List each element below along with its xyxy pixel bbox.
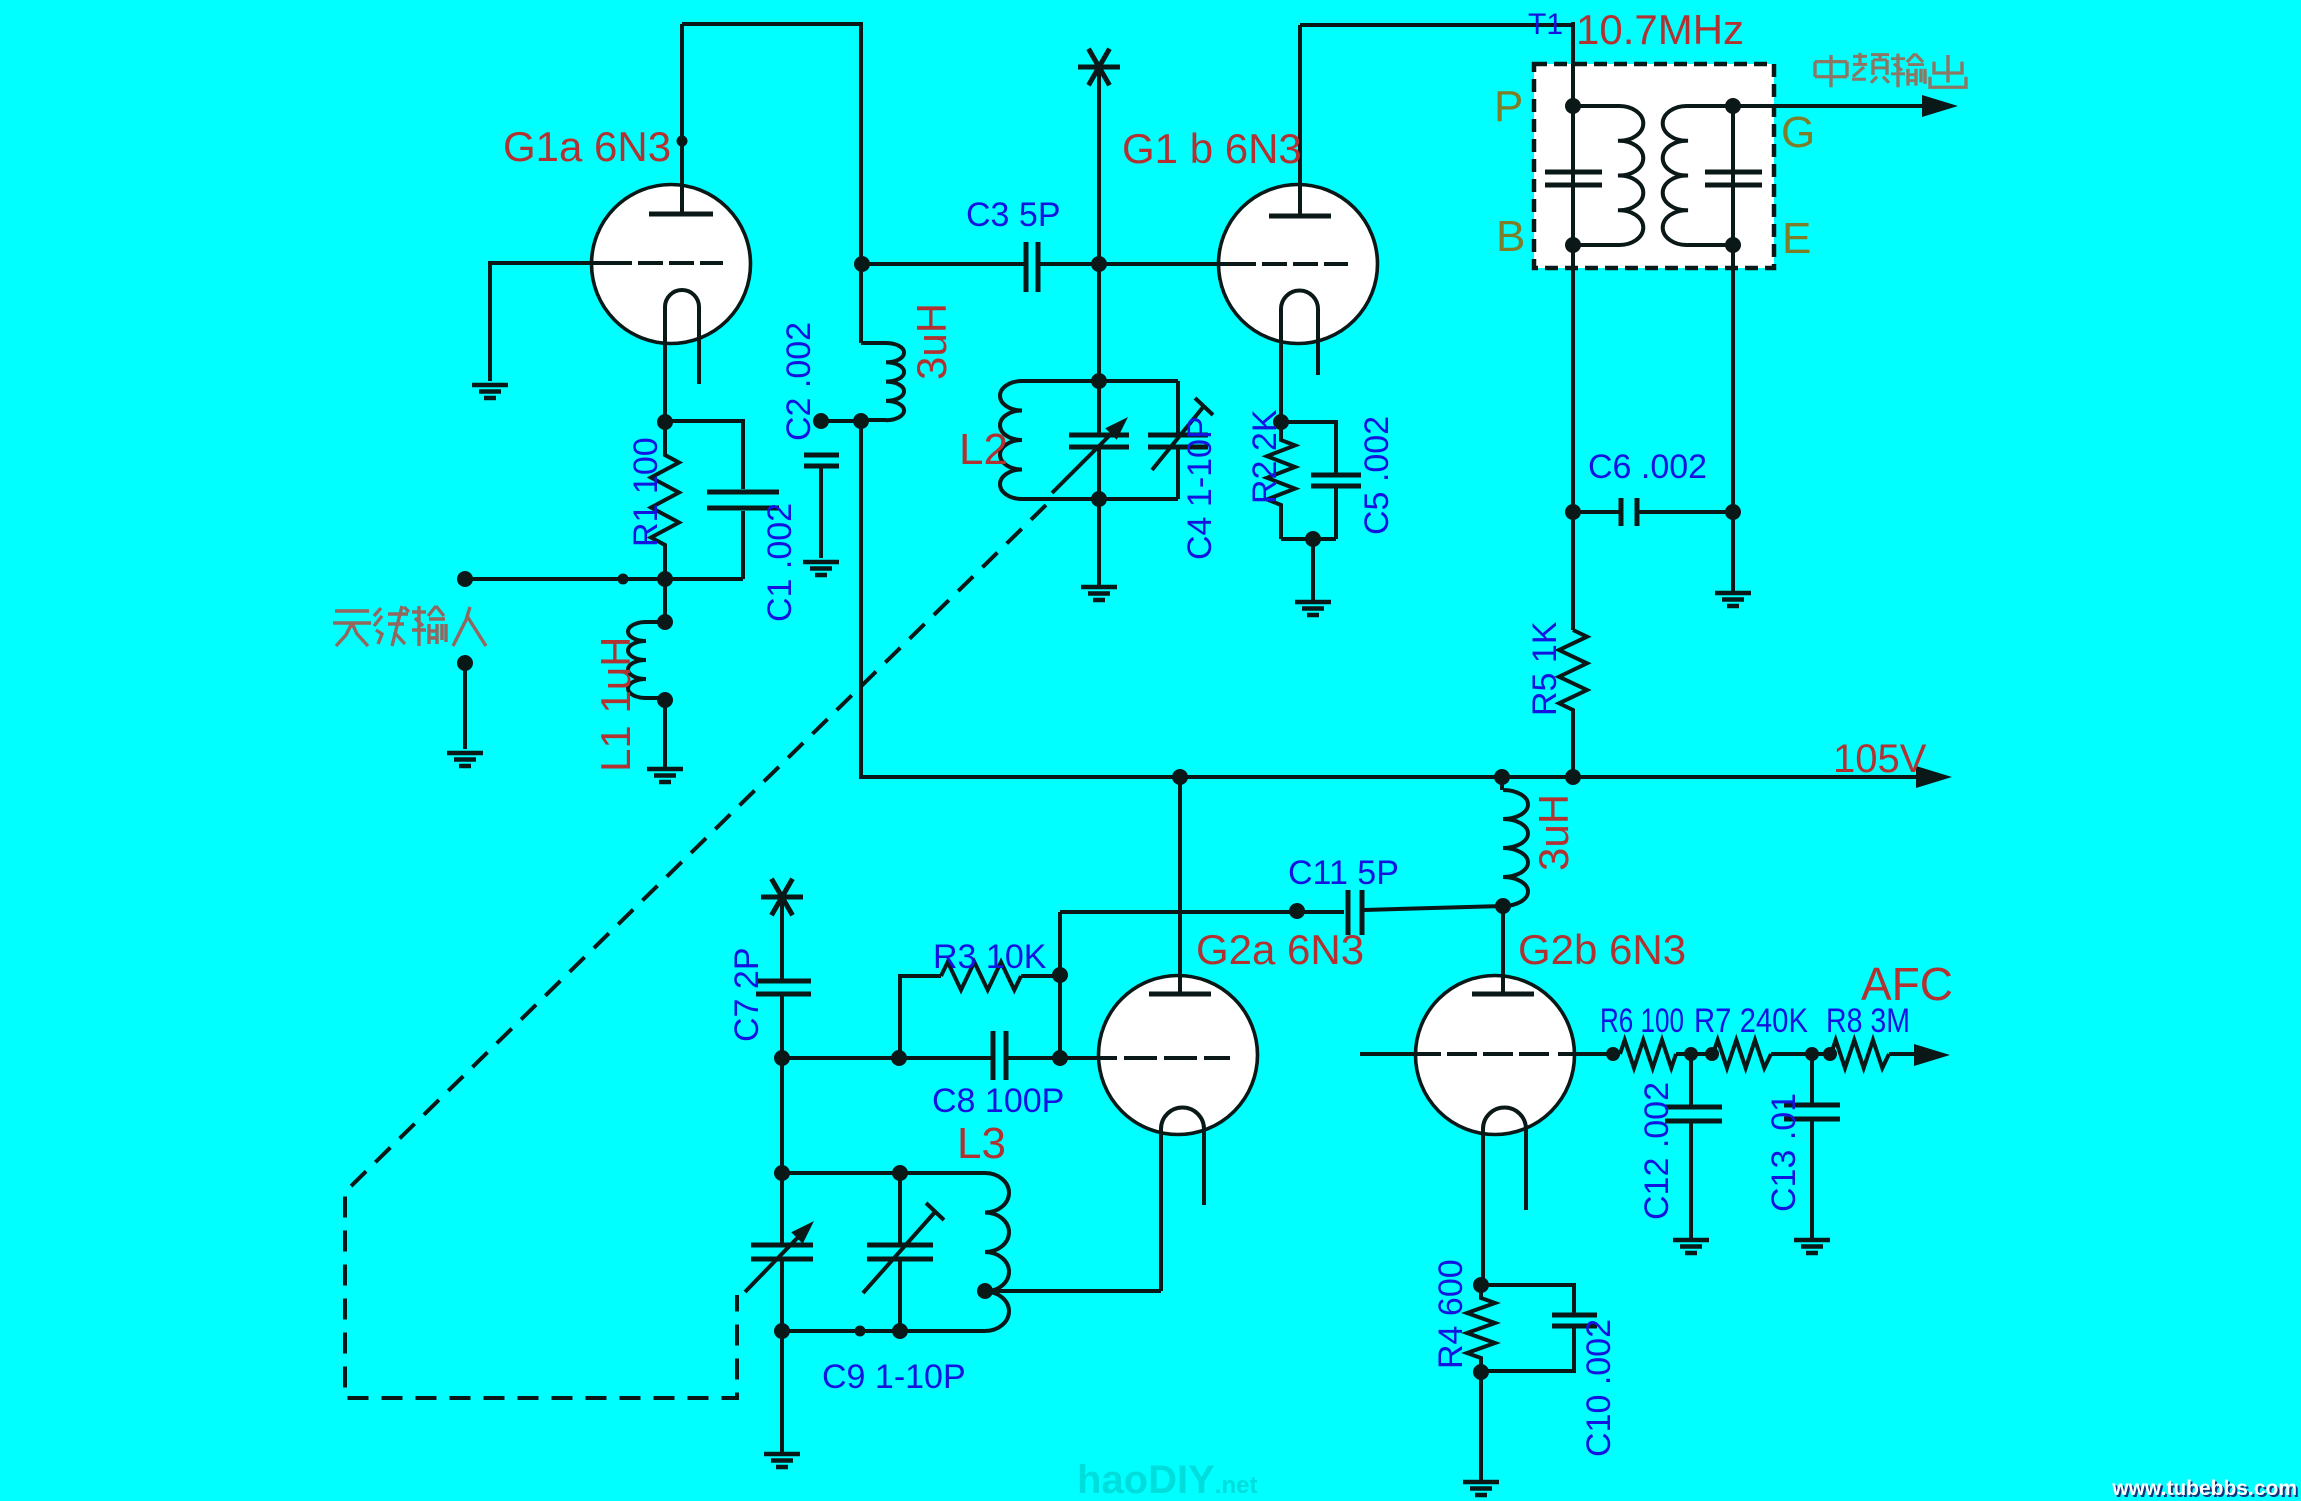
svg-text:G1 b 6N3: G1 b 6N3 bbox=[1122, 125, 1302, 172]
svg-text:C9 1-10P: C9 1-10P bbox=[822, 1358, 966, 1396]
svg-text:R6 100: R6 100 bbox=[1600, 1002, 1684, 1040]
svg-text:R8 3M: R8 3M bbox=[1826, 1002, 1910, 1040]
svg-text:T1: T1 bbox=[1528, 8, 1563, 41]
svg-text:C6 .002: C6 .002 bbox=[1588, 448, 1707, 486]
svg-text:C1 .002: C1 .002 bbox=[761, 503, 799, 622]
svg-text:C3 5P: C3 5P bbox=[966, 196, 1061, 234]
svg-text:C7 2P: C7 2P bbox=[728, 948, 766, 1043]
svg-text:R2 2K: R2 2K bbox=[1246, 409, 1284, 504]
svg-text:C10 .002: C10 .002 bbox=[1580, 1319, 1618, 1457]
svg-text:L1 1uH: L1 1uH bbox=[592, 637, 639, 772]
svg-text:B: B bbox=[1496, 212, 1525, 261]
svg-text:C5 .002: C5 .002 bbox=[1358, 416, 1396, 535]
svg-text:G1a 6N3: G1a 6N3 bbox=[503, 123, 671, 170]
svg-text:G2a 6N3: G2a 6N3 bbox=[1196, 926, 1364, 973]
svg-text:3uH: 3uH bbox=[908, 303, 955, 380]
svg-text:R3 10K: R3 10K bbox=[933, 938, 1047, 976]
svg-text:G: G bbox=[1781, 108, 1815, 157]
svg-text:C8 100P: C8 100P bbox=[932, 1082, 1064, 1120]
svg-text:C11 5P: C11 5P bbox=[1288, 854, 1399, 892]
svg-text:R5 1K: R5 1K bbox=[1526, 621, 1564, 716]
svg-text:R4 600: R4 600 bbox=[1432, 1259, 1470, 1369]
svg-text:10.7MHz: 10.7MHz bbox=[1576, 6, 1744, 53]
svg-text:E: E bbox=[1782, 214, 1811, 263]
svg-text:L2: L2 bbox=[959, 425, 1008, 474]
svg-text:P: P bbox=[1494, 82, 1523, 131]
svg-text:3uH: 3uH bbox=[1530, 794, 1577, 871]
svg-text:R7 240K: R7 240K bbox=[1694, 1002, 1808, 1040]
svg-text:R1 100: R1 100 bbox=[627, 437, 665, 547]
svg-text:G2b 6N3: G2b 6N3 bbox=[1518, 926, 1686, 973]
svg-text:105V: 105V bbox=[1833, 737, 1927, 781]
svg-text:C12 .002: C12 .002 bbox=[1638, 1082, 1676, 1220]
svg-text:C13 .01: C13 .01 bbox=[1765, 1093, 1803, 1212]
svg-text:www.tubebbs.com: www.tubebbs.com bbox=[2111, 1477, 2297, 1500]
svg-text:C4 1-10P: C4 1-10P bbox=[1181, 416, 1219, 560]
svg-text:C2 .002: C2 .002 bbox=[780, 322, 818, 441]
svg-text:L3: L3 bbox=[957, 1119, 1006, 1168]
